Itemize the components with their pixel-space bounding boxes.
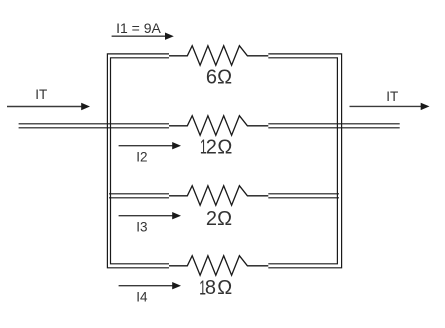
svg-text:Ω: Ω	[217, 66, 232, 88]
svg-text:Ω: Ω	[217, 208, 232, 230]
svg-text:I2: I2	[136, 150, 147, 165]
svg-text:8: 8	[205, 277, 216, 299]
svg-text:I1 = 9A: I1 = 9A	[116, 20, 161, 36]
svg-text:IT: IT	[35, 87, 47, 102]
svg-text:Ω: Ω	[217, 136, 232, 158]
svg-text:6: 6	[206, 66, 217, 88]
svg-text:IT: IT	[386, 89, 398, 104]
svg-text:2: 2	[206, 208, 217, 230]
svg-text:2: 2	[206, 136, 217, 158]
svg-text:I3: I3	[136, 220, 147, 235]
svg-text:Ω: Ω	[217, 277, 232, 299]
svg-text:I4: I4	[136, 290, 148, 305]
